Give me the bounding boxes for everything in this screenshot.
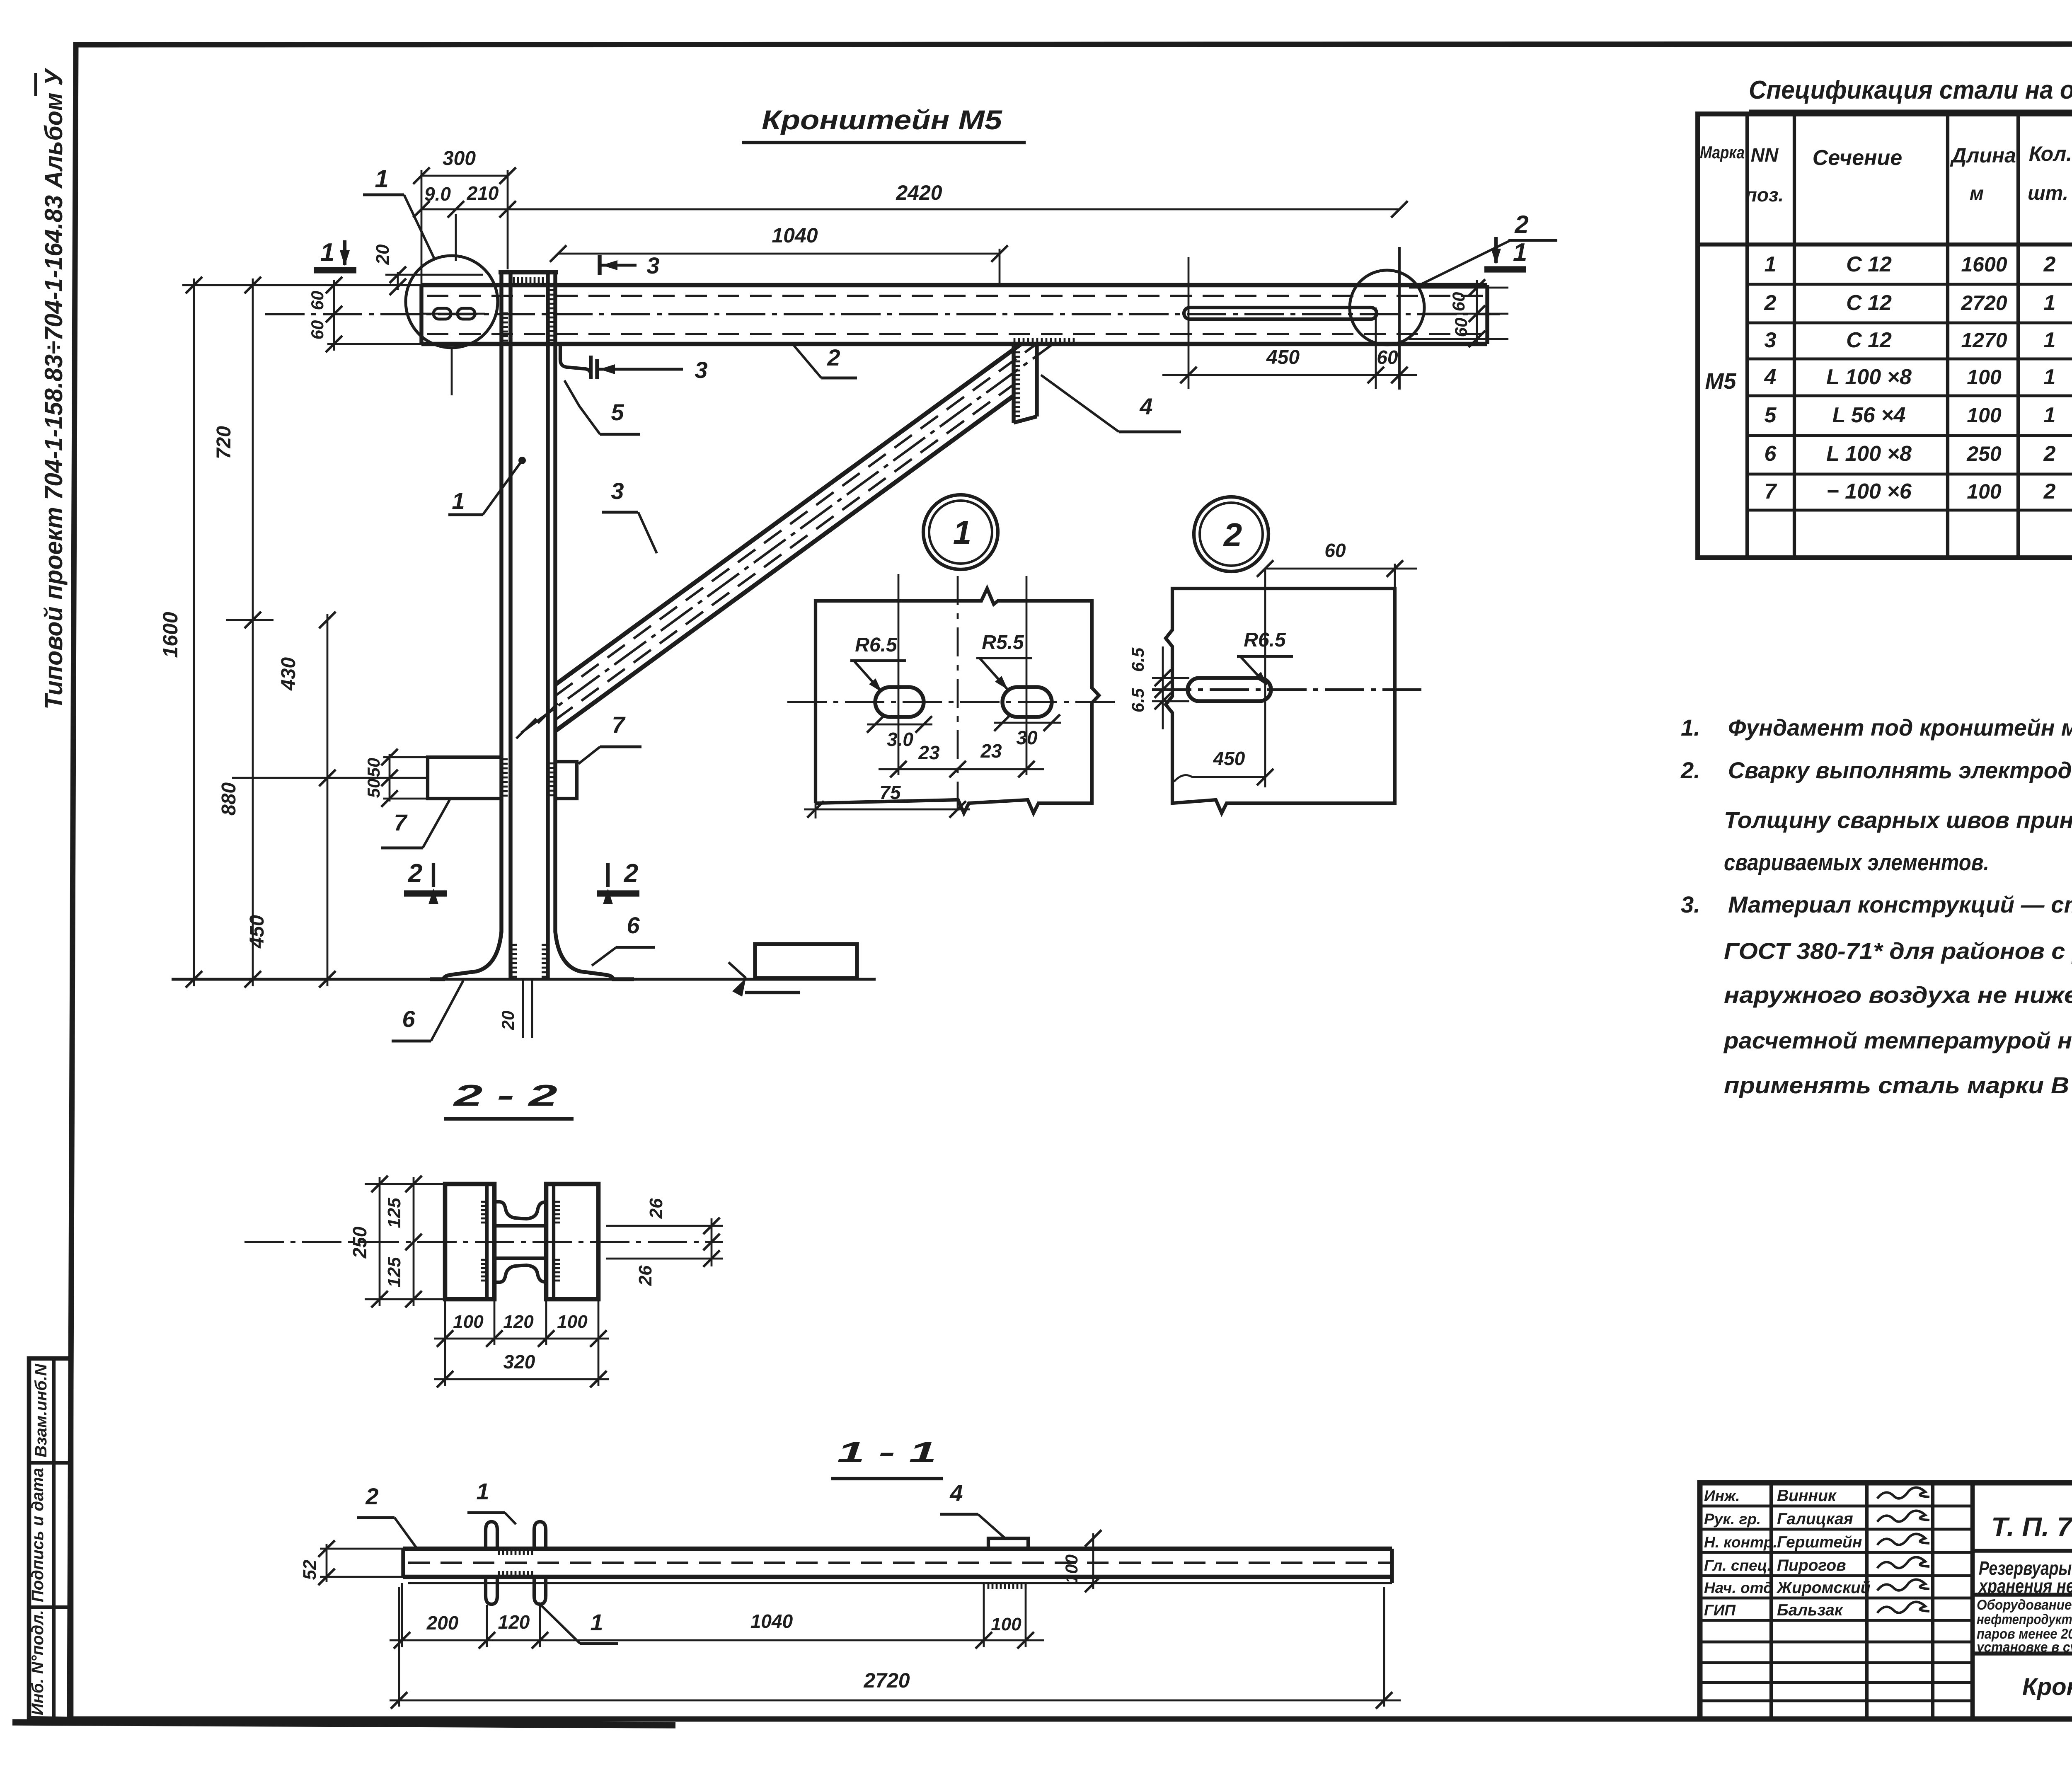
svg-text:1: 1	[1513, 238, 1527, 267]
section 1-1 lower stub right flange	[534, 1577, 546, 1604]
svg-text:R5.5: R5.5	[982, 632, 1024, 654]
svg-text:5: 5	[611, 399, 624, 425]
label 6 right underline	[616, 946, 655, 949]
svg-text:1 - 1: 1 - 1	[837, 1436, 937, 1468]
svg-text:450: 450	[1266, 346, 1300, 368]
svg-text:3.0: 3.0	[887, 729, 913, 750]
label 1 leader line	[483, 460, 522, 515]
detail 2 R6.5 leader	[1240, 656, 1266, 685]
dim 60 60 left ext bottom	[327, 343, 423, 345]
dim 300 ext left	[421, 170, 423, 285]
svg-text:R6.5: R6.5	[855, 634, 898, 656]
svg-text:Т. П. 704-1-158.83÷704-1-164: Т. П. 704-1-158.83÷704-1-164.83 АС	[1991, 1512, 2072, 1542]
detail 2 dim 450 line	[1174, 775, 1265, 782]
svg-text:2: 2	[1514, 211, 1528, 238]
svg-text:1: 1	[375, 165, 388, 193]
weld comb gusset left side	[1014, 352, 1020, 416]
svg-text:100: 100	[1967, 366, 2002, 389]
detail 1 R5.5 right leader	[980, 658, 1007, 689]
weld comb base right	[542, 945, 548, 977]
svg-text:1: 1	[590, 1609, 603, 1635]
stamp signature column line 1	[1769, 1483, 1773, 1719]
svg-text:наружного воздуха не ниже —: наружного воздуха не ниже — 40 °С. Для р…	[1724, 982, 2072, 1008]
detail 1 middle axis	[957, 576, 959, 814]
stamp signature column line 3	[1931, 1483, 1934, 1719]
section 1-1 label 2 underline	[357, 1516, 395, 1519]
svg-text:С 12: С 12	[1846, 252, 1892, 276]
svg-text:2: 2	[1764, 291, 1777, 315]
svg-text:2 - 2: 2 - 2	[453, 1079, 557, 1112]
label 5 leader	[564, 380, 600, 434]
svg-text:1: 1	[1765, 252, 1777, 276]
stamp signature column line 4	[1970, 1483, 1975, 1719]
weld mark 3 upper line	[600, 264, 637, 266]
svg-text:ГИП: ГИП	[1704, 1602, 1736, 1619]
stiffener centre extension line	[232, 777, 428, 779]
svg-text:Сварку выполнять электродами: Сварку выполнять электродами типа Э42 по…	[1728, 757, 2072, 783]
section 1-1 beam left end	[401, 1549, 405, 1577]
slot hole pos2 right 450 long	[1184, 307, 1377, 319]
weld comb column right at beam	[549, 290, 555, 340]
column pos1 right inner line	[546, 272, 549, 978]
label 5 underline	[600, 433, 640, 436]
svg-text:3: 3	[1765, 328, 1777, 352]
detail 2 dim 6.5 line	[1162, 646, 1164, 729]
svg-text:R6.5: R6.5	[1244, 629, 1286, 651]
svg-text:4: 4	[1139, 393, 1152, 419]
dim 20 base right ext	[531, 979, 533, 1038]
section 2-2 right channel body	[546, 1184, 598, 1299]
detail circle mark 1 on beam left end	[406, 256, 498, 348]
svg-text:100: 100	[991, 1614, 1021, 1634]
section 2-2 dim 26 ext b	[606, 1258, 723, 1260]
label 3 leader	[638, 512, 657, 553]
section 2-2 dim 26 ext a	[606, 1225, 723, 1227]
svg-text:100: 100	[1967, 480, 2002, 503]
dim 1040 ext right	[999, 249, 1001, 285]
svg-text:1.: 1.	[1681, 714, 1700, 741]
label 1 underline	[363, 193, 404, 196]
svg-text:Кронштейн М 5: Кронштейн М 5	[2022, 1673, 2072, 1700]
svg-text:Длина: Длина	[1950, 144, 2016, 167]
svg-text:30: 30	[1016, 727, 1038, 748]
svg-text:2: 2	[2043, 442, 2056, 466]
detail 1 dim 75 ext	[815, 803, 817, 818]
section 1-1 label 1 lower underline	[580, 1642, 618, 1645]
svg-text:7: 7	[394, 809, 408, 835]
detail 1 centre line horizontal	[787, 701, 1119, 703]
svg-text:720: 720	[213, 426, 235, 459]
label 6 left underline	[392, 1039, 431, 1042]
label 6 right leader	[592, 947, 616, 966]
section mark 1 left underline	[314, 267, 356, 273]
section 2-2 weld comb right lower	[554, 1260, 560, 1281]
svg-text:1040: 1040	[772, 224, 818, 247]
side strip box	[29, 1358, 71, 1719]
weld comb stiffener left	[501, 759, 508, 796]
svg-text:ГОСТ 380-71* для районов с: ГОСТ 380-71* для районов с расчетной тем…	[1724, 938, 2072, 964]
detail 1 dim 75 line	[804, 809, 970, 811]
svg-text:L 56 ×4: L 56 ×4	[1832, 403, 1906, 427]
detail 2 plate outline	[1166, 588, 1395, 813]
svg-text:Взам.инб.N: Взам.инб.N	[32, 1363, 50, 1458]
svg-text:6: 6	[1765, 442, 1777, 466]
column base foot right pos6	[555, 932, 634, 979]
svg-text:5: 5	[1765, 403, 1777, 427]
svg-text:1: 1	[2044, 291, 2056, 315]
dim 1040 line	[558, 253, 1000, 255]
brace pos3 lower dashed line	[555, 385, 1014, 720]
svg-text:Инж.: Инж.	[1704, 1487, 1740, 1504]
section 1-1 beam dashed centre	[408, 1562, 1392, 1564]
detail 2 dim 60 ext right	[1394, 564, 1396, 591]
column base foot left pos6	[430, 932, 501, 979]
work point tick a	[538, 703, 558, 723]
section 2-2 ext top	[365, 1183, 445, 1185]
label 6 left leader	[431, 981, 463, 1041]
svg-text:1: 1	[2044, 328, 2056, 352]
dim 60 60 right ext bot	[1409, 338, 1508, 340]
svg-text:Типовой проект 704-1-158.83: Типовой проект 704-1-158.83÷704-1-164.83…	[40, 68, 68, 709]
svg-text:60: 60	[1377, 346, 1398, 368]
foundation rectangle	[755, 944, 857, 978]
column pos1 left inner line	[508, 272, 512, 978]
svg-text:120: 120	[503, 1312, 534, 1332]
dim 60 60 right line	[1476, 280, 1478, 344]
svg-text:2: 2	[365, 1483, 378, 1509]
gusset pos4 plate left line	[1012, 344, 1015, 423]
section mark 2 left arrow	[432, 863, 435, 887]
svg-text:Спецификация стали на одну: Спецификация стали на одну штуку каждой …	[1749, 76, 2072, 104]
beam pos2 left end line	[419, 285, 423, 344]
svg-text:Галицкая: Галицкая	[1777, 1510, 1853, 1528]
svg-text:NN: NN	[1751, 144, 1779, 166]
label 7 left underline	[381, 846, 423, 849]
title underline	[742, 141, 1026, 144]
detail 2 slot capsule	[1188, 678, 1271, 701]
axis line below detail circle 1	[451, 349, 453, 395]
dim 450 60 line	[1162, 374, 1417, 376]
svg-text:3: 3	[695, 357, 707, 383]
svg-text:м: м	[1970, 182, 1984, 204]
svg-text:6.5: 6.5	[1128, 688, 1147, 712]
section 1-1 lower stub left flange	[486, 1577, 497, 1604]
gusset pos4 plate bottom	[1014, 416, 1037, 423]
section 1-1 dim 2720 line	[390, 1700, 1401, 1702]
svg-text:1: 1	[476, 1478, 489, 1504]
beam pos2 bottom flange line	[421, 342, 1487, 346]
svg-text:26: 26	[646, 1198, 666, 1219]
spec table row lines	[1747, 283, 2072, 286]
section mark 1 right underline	[1484, 266, 1526, 272]
svg-text:52: 52	[300, 1559, 320, 1580]
section 1-1 ext e	[1025, 1584, 1027, 1647]
detail 1 slot right axis	[1026, 576, 1028, 775]
svg-text:120: 120	[498, 1611, 530, 1633]
label 2 underline	[821, 376, 857, 379]
section 1-1 beam right end	[1390, 1549, 1394, 1583]
svg-text:L 100 ×8: L 100 ×8	[1826, 365, 1912, 389]
svg-text:2: 2	[1223, 516, 1242, 553]
svg-text:450: 450	[246, 915, 268, 949]
ground line	[172, 978, 876, 981]
overline on albom numeral	[34, 73, 37, 96]
stamp lower divider line	[1973, 1651, 2072, 1655]
detail 1 R6.5 left leader	[854, 661, 881, 691]
brace pos3 upper dashed line	[555, 344, 1036, 696]
svg-text:2420: 2420	[896, 181, 942, 204]
foundation base line	[745, 991, 800, 994]
detail 1 dim 23 23 line	[879, 768, 1044, 770]
svg-text:2: 2	[408, 859, 422, 888]
spec table title underline	[1749, 109, 2072, 112]
svg-text:С 12: С 12	[1846, 328, 1892, 352]
section 2-2 bottom flange lower contour	[494, 1265, 546, 1282]
svg-text:100: 100	[1967, 404, 2002, 427]
work point tick b	[516, 719, 536, 738]
svg-text:2: 2	[2043, 479, 2056, 504]
label 2 leader	[794, 346, 821, 378]
section mark 1 right arrow	[1494, 237, 1498, 263]
section 1-1 dim 2720 ext right	[1383, 1587, 1385, 1707]
dim 450 ext left	[1188, 257, 1190, 389]
section 1-1 upper stub left flange	[486, 1522, 497, 1549]
svg-text:50: 50	[364, 758, 383, 777]
svg-text:2720: 2720	[863, 1669, 910, 1692]
beam pos2 top inner dashed line	[427, 295, 1487, 297]
svg-text:6: 6	[402, 1006, 415, 1032]
section 2-2 top flange upper contour	[494, 1202, 546, 1219]
label 1 leader dot on column	[518, 457, 526, 464]
svg-text:125: 125	[384, 1198, 404, 1228]
svg-text:− 100 ×6: − 100 ×6	[1826, 479, 1912, 504]
detail circle mark 2 on beam right end	[1350, 270, 1424, 345]
svg-text:Герштейн: Герштейн	[1777, 1533, 1862, 1551]
svg-text:Н. контр.: Н. контр.	[1704, 1534, 1777, 1551]
svg-text:применять сталь марки В ст: применять сталь марки В ст 3пс 6 по ГОСТ…	[1724, 1072, 2072, 1098]
label 2 underline	[1508, 239, 1557, 242]
slot hole left pair B	[457, 308, 475, 319]
beam top extension to left dims	[182, 284, 332, 286]
section 1-1 dim 2720 ext left	[398, 1587, 400, 1707]
svg-text:320: 320	[503, 1351, 535, 1373]
svg-text:Винник: Винник	[1777, 1487, 1837, 1505]
leader to detail circle 1	[404, 195, 434, 259]
section 1-1 beam bottom line	[403, 1575, 1392, 1579]
detail 1 balloon circle	[923, 495, 998, 569]
svg-text:26: 26	[635, 1265, 656, 1286]
beam pos2 bottom inner dashed line	[427, 333, 1487, 335]
svg-text:поз.: поз.	[1745, 184, 1784, 206]
section 1-1 weld comb pos4 below	[988, 1584, 1026, 1589]
svg-text:1: 1	[2044, 403, 2056, 427]
detail 2 dim 6.5 ext bot	[1152, 700, 1189, 702]
label 4 leader	[1041, 375, 1119, 432]
svg-text:250: 250	[1966, 442, 2002, 465]
section 2-2 dims 100 120 100 line	[434, 1338, 609, 1340]
section 1-1 ext c	[539, 1605, 541, 1647]
svg-text:75: 75	[879, 782, 901, 803]
weld mark 3 lower bar	[595, 359, 599, 379]
svg-text:шт.: шт.	[2028, 182, 2068, 204]
section 2-2 dim 125 line	[413, 1177, 415, 1306]
section 1-1 beam top line	[403, 1547, 1392, 1551]
stamp outer box	[1700, 1483, 2072, 1719]
stamp signature row lines	[1700, 1504, 1973, 1507]
gusset pos4 plate right line	[1035, 344, 1038, 416]
svg-text:1: 1	[320, 238, 334, 267]
svg-text:Фундамент под кронштейн м5: Фундамент под кронштейн м5 разработан на…	[1728, 714, 2072, 741]
detail 1 dim 30 line	[994, 722, 1061, 724]
beam pos2 top flange line	[421, 283, 1487, 288]
svg-text:20: 20	[373, 244, 393, 265]
svg-text:М5: М5	[1705, 369, 1736, 394]
paper edge line bottom-left	[12, 1722, 675, 1725]
svg-text:3.: 3.	[1681, 891, 1700, 918]
side strip divider 2	[29, 1605, 71, 1609]
angle pos5 flange tip	[589, 356, 593, 379]
svg-text:2: 2	[624, 859, 638, 888]
dim 20 base left ext	[522, 979, 524, 1038]
section 2-2 top flange lower line	[494, 1224, 546, 1228]
label 4 underline	[1119, 430, 1181, 433]
svg-text:1600: 1600	[1961, 253, 2007, 276]
dim 50 extension bottom	[383, 798, 429, 800]
svg-text:Инб. N°подл.: Инб. N°подл.	[29, 1610, 47, 1715]
svg-text:200: 200	[426, 1612, 459, 1634]
svg-text:нефтепродуктов с давлением нас: нефтепродуктов с давлением насыщенных	[1977, 1612, 2072, 1627]
dim 450 ext right	[1375, 307, 1377, 389]
dim 300 ext right	[507, 170, 509, 269]
section 2-2 bottom flange upper line	[494, 1257, 546, 1260]
detail 2 dim 6.5 ext top	[1152, 677, 1189, 679]
leader to detail circle 2	[1419, 240, 1510, 285]
dim 1600 line	[193, 278, 195, 986]
svg-text:60: 60	[307, 320, 327, 340]
svg-text:3: 3	[646, 252, 659, 278]
svg-text:Сечение: Сечение	[1813, 146, 1903, 170]
detail 2 centre line	[1152, 688, 1421, 691]
detail 1 R6.5 left underline	[850, 659, 906, 662]
section 2-2 weld comb left upper	[481, 1202, 487, 1223]
svg-text:С 12: С 12	[1846, 291, 1892, 315]
slot hole line through	[423, 313, 485, 315]
svg-text:210: 210	[467, 182, 499, 204]
dim 210 ext mid	[455, 214, 457, 261]
dim 300 line	[421, 175, 508, 177]
label 3 underline	[602, 511, 638, 513]
svg-text:2: 2	[827, 344, 840, 370]
stamp signature column line 2	[1865, 1483, 1869, 1719]
section 1-1 label 1 lower leader	[539, 1603, 580, 1644]
section 1-1 label 1 upper underline	[467, 1511, 505, 1514]
section 1-1 weld comb lower	[499, 1571, 532, 1577]
detail 1 slot left	[875, 687, 924, 717]
svg-text:100: 100	[557, 1312, 588, 1332]
label 1 underline	[448, 513, 483, 516]
section 1-1 weld comb upper	[499, 1549, 532, 1555]
section 2-2 left channel body	[445, 1184, 494, 1299]
section 2-2 dim 320 line	[434, 1378, 609, 1380]
brace pos3 centre dash-dot	[521, 344, 1053, 733]
svg-text:6.5: 6.5	[1128, 647, 1147, 672]
spec table header bottom line	[1698, 242, 2072, 246]
svg-text:9.0: 9.0	[424, 183, 451, 205]
section 2-2 dim 250 line	[379, 1177, 381, 1306]
stiffener pos7 right plate	[555, 762, 577, 799]
svg-text:430: 430	[278, 657, 300, 691]
svg-text:Жиромский: Жиромский	[1776, 1579, 1871, 1597]
dim 50 50 line	[389, 754, 391, 801]
dim 20 ext top	[385, 274, 483, 276]
weld comb base left	[511, 945, 517, 977]
side strip divider column	[52, 1358, 56, 1718]
section 1-1 label 1 upper leader	[505, 1513, 516, 1524]
svg-text:100: 100	[453, 1312, 484, 1332]
section 1-1 title underline	[831, 1477, 943, 1480]
section 2-2 ext verticals	[444, 1299, 446, 1386]
beam pos2 centre dash-dot line	[265, 313, 1500, 315]
dim 60 60 left ext top	[327, 284, 423, 286]
section 1-1 label 2 leader	[395, 1518, 416, 1548]
svg-text:60: 60	[1449, 292, 1468, 312]
column pos1 cap plate	[499, 270, 558, 275]
svg-text:1: 1	[452, 488, 465, 514]
angle pos5 profile	[560, 345, 591, 379]
svg-text:1270: 1270	[1961, 329, 2007, 352]
section 2-2 title underline	[444, 1117, 574, 1121]
detail 1 slot left axis	[898, 574, 900, 775]
svg-text:125: 125	[384, 1257, 404, 1288]
stamp TP cell bottom line	[1973, 1549, 2072, 1552]
svg-text:50: 50	[364, 779, 383, 798]
ground end arrow	[732, 978, 746, 997]
section 2-2 weld comb right upper	[554, 1202, 560, 1223]
column pos1 right outer line	[553, 272, 557, 932]
section 2-2 right channel web line	[552, 1184, 555, 1299]
svg-text:2.: 2.	[1680, 757, 1700, 783]
section 1-1 ext b	[486, 1605, 488, 1647]
side strip divider 1	[29, 1461, 71, 1465]
weld mark 3 lower line	[597, 368, 683, 370]
svg-text:23: 23	[918, 742, 940, 763]
svg-text:1: 1	[953, 514, 972, 551]
brace point extension line	[226, 619, 274, 621]
section 2-2 left channel web line	[485, 1184, 489, 1299]
svg-text:2: 2	[2043, 252, 2056, 276]
svg-text:1: 1	[2044, 365, 2056, 389]
brace pos3 upper edge	[555, 344, 1021, 685]
beam pos2 right end line	[1485, 285, 1489, 344]
dim 60 60 right ext top	[1409, 287, 1508, 289]
dim 50 extension top	[383, 756, 429, 758]
weld comb brace to beam	[1014, 338, 1074, 344]
svg-text:Пирогов: Пирогов	[1777, 1557, 1846, 1574]
svg-text:свариваемых элементов.: свариваемых элементов.	[1724, 849, 1989, 875]
dim 20 vert line	[397, 272, 399, 290]
stiffener pos7 left plate	[428, 757, 501, 799]
svg-text:880: 880	[218, 782, 240, 816]
detail 2 dim 60 line	[1265, 568, 1417, 570]
section 2-2 ext bottom	[365, 1298, 445, 1300]
svg-text:Кронштейн М5: Кронштейн М5	[762, 104, 1002, 135]
svg-text:Подпись и дата: Подпись и дата	[29, 1468, 47, 1602]
detail 1 R5.5 right underline	[976, 657, 1032, 659]
dim 720 880 line	[252, 278, 254, 986]
detail 2 slot end axis	[1264, 569, 1266, 787]
svg-text:1040: 1040	[750, 1610, 793, 1632]
label 7 right leader	[579, 747, 600, 764]
